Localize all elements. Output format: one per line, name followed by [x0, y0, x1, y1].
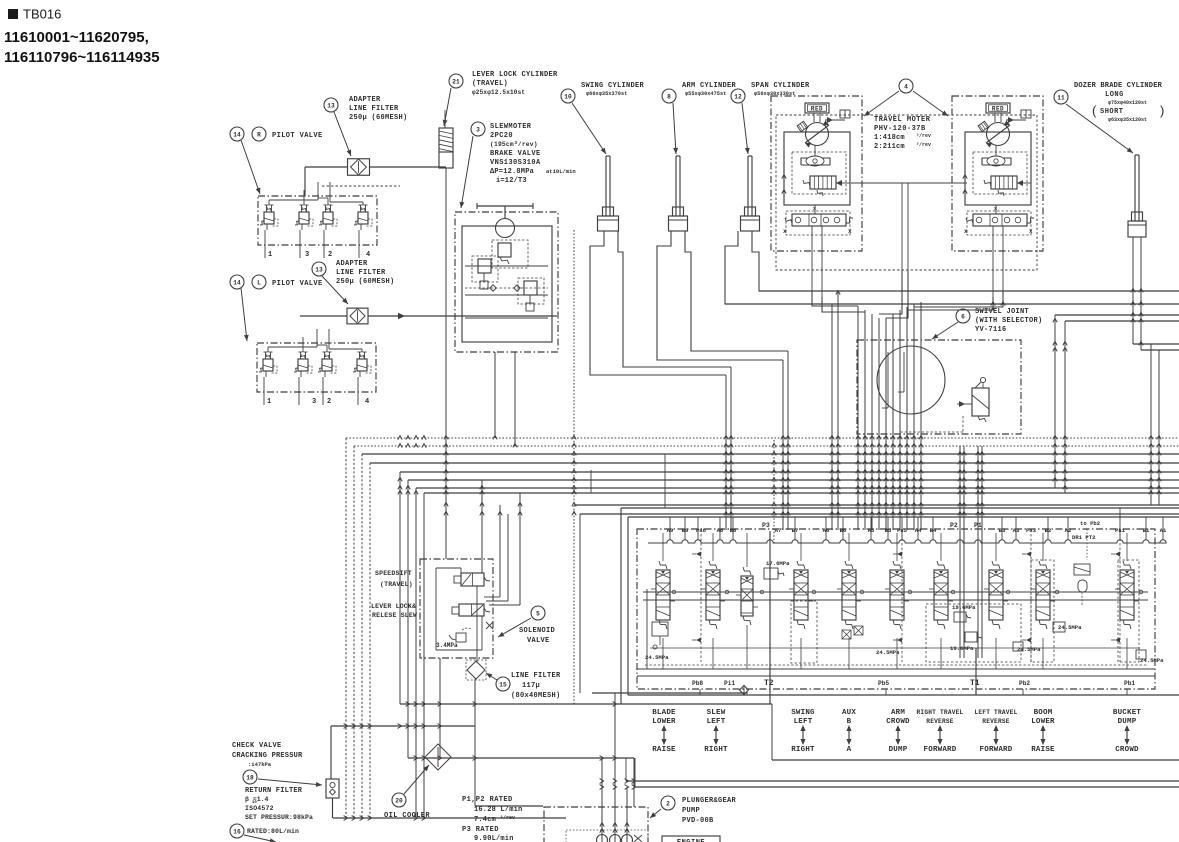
svg-text:SWING: SWING	[791, 709, 815, 717]
svg-text:φ63xφ35x120st: φ63xφ35x120st	[1108, 117, 1147, 123]
svg-text:(195cm³/rev): (195cm³/rev)	[490, 141, 538, 148]
svg-text:14: 14	[233, 131, 241, 138]
svg-text:LINE FILTER: LINE FILTER	[349, 105, 399, 113]
svg-text:19.6MPa: 19.6MPa	[950, 645, 974, 652]
svg-text:φ60xφ35x370st: φ60xφ35x370st	[586, 91, 627, 97]
svg-text:13: 13	[315, 266, 323, 273]
svg-text:LINE FILTER: LINE FILTER	[336, 269, 386, 277]
svg-text:3: 3	[305, 251, 309, 259]
svg-text:RELESE SLEW: RELESE SLEW	[372, 612, 417, 619]
svg-text:LEVER LOCK&: LEVER LOCK&	[371, 603, 416, 610]
svg-text:TB016: TB016	[23, 7, 61, 22]
svg-text:DUMP: DUMP	[889, 746, 908, 754]
svg-text:LEFT: LEFT	[707, 718, 726, 726]
svg-text:DUMP: DUMP	[1118, 718, 1137, 726]
svg-text:RETURN FILTER: RETURN FILTER	[245, 787, 303, 795]
svg-text:RATED:80L/min: RATED:80L/min	[247, 828, 299, 835]
svg-text:ARM CYLINDER: ARM CYLINDER	[682, 82, 737, 90]
svg-text:LEVER LOCK CYLINDER: LEVER LOCK CYLINDER	[472, 71, 558, 79]
svg-text:18: 18	[246, 774, 254, 781]
svg-text:BLADE: BLADE	[652, 709, 676, 717]
svg-text:T1: T1	[970, 679, 980, 688]
svg-text:A: A	[847, 746, 852, 754]
svg-text:14: 14	[233, 279, 241, 286]
svg-text:VNS130S310A: VNS130S310A	[490, 159, 541, 167]
svg-text:BOOM: BOOM	[1034, 709, 1053, 717]
svg-text:TRAVEL MOTER: TRAVEL MOTER	[874, 116, 931, 124]
svg-text:20: 20	[395, 797, 403, 804]
svg-text:(WITH SELECTOR): (WITH SELECTOR)	[975, 317, 1043, 325]
svg-text:7.4cm: 7.4cm	[474, 816, 496, 824]
svg-text:CROWD: CROWD	[1115, 746, 1139, 754]
svg-text:PHV-120-37B: PHV-120-37B	[874, 125, 926, 133]
svg-text::147kPa: :147kPa	[248, 761, 272, 768]
svg-text:1: 1	[267, 398, 271, 406]
svg-text:2:211cm: 2:211cm	[874, 143, 905, 151]
svg-text:250μ (60MESH): 250μ (60MESH)	[349, 114, 408, 122]
svg-text:YV-7116: YV-7116	[975, 326, 1007, 334]
svg-text:DR1 PT2: DR1 PT2	[1072, 534, 1096, 541]
svg-text:Pb1: Pb1	[1124, 680, 1135, 687]
svg-text:SWING CYLINDER: SWING CYLINDER	[581, 82, 645, 90]
svg-text:8: 8	[667, 93, 671, 100]
svg-text:i=12/T3: i=12/T3	[496, 177, 527, 185]
svg-text:24.5MPa: 24.5MPa	[645, 654, 669, 661]
svg-text:LEFT TRAVEL: LEFT TRAVEL	[974, 709, 1017, 716]
svg-text:17.6MPa: 17.6MPa	[766, 560, 790, 567]
svg-text:9.90L/min: 9.90L/min	[474, 835, 514, 842]
svg-text:24.5MPa: 24.5MPa	[1058, 624, 1082, 631]
svg-text:ISO4572: ISO4572	[245, 805, 274, 812]
svg-text:(TRAVEL): (TRAVEL)	[472, 80, 508, 88]
svg-text:Pb5: Pb5	[878, 680, 889, 687]
svg-text:SLEW: SLEW	[707, 709, 726, 717]
svg-text:CHECK VALVE: CHECK VALVE	[232, 742, 282, 750]
svg-text:(: (	[1092, 103, 1097, 118]
svg-text:OIL COOLER: OIL COOLER	[384, 812, 430, 820]
svg-text:P3 RATED: P3 RATED	[462, 826, 499, 834]
svg-text:10: 10	[564, 93, 572, 100]
svg-text:19.6MPa: 19.6MPa	[952, 604, 976, 611]
svg-text:CRACKING PRESSUR: CRACKING PRESSUR	[232, 752, 303, 760]
svg-text:RIGHT: RIGHT	[791, 746, 815, 754]
svg-text:SHORT: SHORT	[1100, 108, 1124, 116]
svg-text:³/rev: ³/rev	[916, 142, 931, 148]
svg-text:11610001~11620795,: 11610001~11620795,	[4, 29, 149, 46]
svg-text:6: 6	[961, 313, 965, 320]
svg-text:LOWER: LOWER	[652, 718, 676, 726]
svg-text:BRAKE VALVE: BRAKE VALVE	[490, 150, 541, 158]
svg-text:ADAPTER: ADAPTER	[336, 260, 368, 268]
svg-text:φ55xφ30x475st: φ55xφ30x475st	[685, 91, 726, 97]
svg-text:ARM: ARM	[891, 709, 905, 717]
svg-text:2: 2	[666, 800, 670, 807]
svg-text:SPAN CYLINDER: SPAN CYLINDER	[751, 82, 810, 90]
svg-text:REVERSE: REVERSE	[926, 718, 953, 725]
svg-text:16: 16	[233, 828, 241, 835]
svg-text:2PC20: 2PC20	[490, 132, 513, 140]
svg-text:24.5MPa: 24.5MPa	[1140, 657, 1164, 664]
svg-text:x: x	[813, 206, 816, 212]
svg-text:SLEWMOTER: SLEWMOTER	[490, 123, 532, 131]
svg-text:117μ: 117μ	[522, 682, 540, 690]
svg-text:DOZER BRADE CYLINDER: DOZER BRADE CYLINDER	[1074, 82, 1163, 90]
svg-text:PUMP: PUMP	[682, 807, 700, 815]
svg-text:P1,P2 RATED: P1,P2 RATED	[462, 796, 513, 804]
svg-text:ADAPTER: ADAPTER	[349, 96, 381, 104]
svg-text:³/rev: ³/rev	[500, 815, 515, 821]
svg-text:PLUNGER&GEAR: PLUNGER&GEAR	[682, 797, 737, 805]
svg-text:2: 2	[328, 251, 332, 259]
svg-text:B: B	[847, 718, 852, 726]
svg-text:RIGHT: RIGHT	[704, 746, 728, 754]
svg-text:(TRAVEL): (TRAVEL)	[380, 581, 413, 588]
svg-text:Pb8: Pb8	[692, 680, 703, 687]
svg-text:3: 3	[312, 398, 316, 406]
svg-text:12: 12	[734, 93, 742, 100]
svg-text:1:418cm: 1:418cm	[874, 134, 905, 142]
svg-text:5: 5	[536, 610, 540, 617]
svg-text:1: 1	[268, 251, 272, 259]
svg-text:AUX: AUX	[842, 709, 856, 717]
svg-text:11: 11	[1057, 94, 1065, 101]
svg-text:at10L/min: at10L/min	[546, 168, 576, 175]
svg-text:RIGHT TRAVEL: RIGHT TRAVEL	[917, 709, 964, 716]
svg-text:2: 2	[327, 398, 331, 406]
svg-text:13: 13	[327, 102, 335, 109]
svg-text:to Pb2: to Pb2	[1080, 520, 1101, 527]
svg-text:4: 4	[365, 398, 369, 406]
svg-text:FORWARD: FORWARD	[924, 746, 957, 754]
svg-text:φ25xφ12.5x10st: φ25xφ12.5x10st	[472, 89, 525, 96]
svg-text:LOWER: LOWER	[1031, 718, 1055, 726]
svg-text:CROWD: CROWD	[886, 718, 910, 726]
svg-text:LINE FILTER: LINE FILTER	[511, 672, 561, 680]
svg-text:P2: P2	[950, 522, 958, 529]
svg-text:24.5MPa: 24.5MPa	[876, 649, 900, 656]
svg-text:FORWARD: FORWARD	[980, 746, 1013, 754]
svg-text:L: L	[257, 279, 261, 286]
svg-text:): )	[1160, 103, 1164, 118]
svg-text:RED: RED	[811, 105, 823, 112]
svg-text:21: 21	[452, 78, 460, 85]
svg-text:ΔP=12.8MPa: ΔP=12.8MPa	[490, 168, 535, 176]
svg-text:T2: T2	[764, 679, 774, 688]
svg-text:RED: RED	[992, 105, 1004, 112]
svg-text:Pa3: Pa3	[1026, 527, 1037, 534]
svg-text:VALVE: VALVE	[527, 637, 550, 645]
svg-text:REVERSE: REVERSE	[982, 718, 1009, 725]
svg-text:φ75xφ40x120st: φ75xφ40x120st	[1108, 100, 1147, 106]
svg-text:15: 15	[499, 681, 507, 688]
svg-text:Pi1: Pi1	[724, 680, 735, 687]
svg-text:3: 3	[476, 126, 480, 133]
svg-text:A7: A7	[775, 527, 782, 534]
svg-text:³/rev: ³/rev	[916, 133, 931, 139]
svg-text:3.4MPa: 3.4MPa	[436, 642, 458, 649]
svg-text:SET PRESSUR:98kPa: SET PRESSUR:98kPa	[245, 814, 313, 821]
svg-text:4: 4	[366, 251, 370, 259]
svg-text:SOLENOID: SOLENOID	[519, 627, 555, 635]
svg-text:116110796~116114935: 116110796~116114935	[4, 49, 160, 66]
svg-text:Pb2: Pb2	[1019, 680, 1030, 687]
svg-text:PILOT VALVE: PILOT VALVE	[272, 280, 323, 288]
svg-text:LONG: LONG	[1105, 91, 1124, 99]
svg-text:x: x	[994, 206, 997, 212]
svg-text:SPEEDSIFT: SPEEDSIFT	[375, 570, 412, 577]
svg-text:RAISE: RAISE	[1031, 746, 1055, 754]
svg-text:SWIVEL JOINT: SWIVEL JOINT	[975, 308, 1029, 316]
svg-text:RAISE: RAISE	[652, 746, 676, 754]
svg-text:250μ (60MESH): 250μ (60MESH)	[336, 278, 395, 286]
svg-text:24.5MPa: 24.5MPa	[1017, 646, 1041, 653]
svg-text:LEFT: LEFT	[794, 718, 813, 726]
svg-text:PVD-00B: PVD-00B	[682, 817, 714, 825]
svg-text:R: R	[257, 131, 261, 138]
svg-text:16.28 L/min: 16.28 L/min	[474, 806, 522, 814]
svg-text:4: 4	[904, 83, 908, 90]
svg-text:(80x40MESH): (80x40MESH)	[511, 692, 561, 700]
svg-text:BUCKET: BUCKET	[1113, 709, 1142, 717]
svg-text:P3: P3	[762, 522, 770, 529]
svg-text:PILOT VALVE: PILOT VALVE	[272, 132, 323, 140]
